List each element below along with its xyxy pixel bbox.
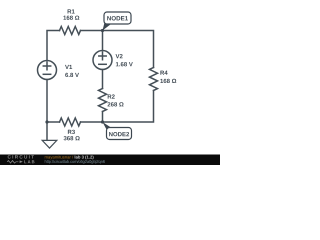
wire left rail top — [47, 31, 60, 61]
label V1 name — [65, 65, 72, 69]
wire V2 to R2 — [102, 70, 104, 89]
resistor R1 — [60, 27, 81, 35]
NODE2 flag tail — [103, 122, 115, 130]
NODE1 flag tail — [103, 23, 114, 31]
bar url text — [45, 160, 105, 164]
bar username text — [45, 155, 73, 159]
wire node1 junction down to V2 — [102, 31, 104, 51]
junction dot node1 — [101, 29, 104, 32]
label R3 name — [68, 130, 75, 134]
V1 plus sign — [43, 62, 50, 69]
V1 minus sign — [43, 73, 50, 75]
NODE1 label box — [104, 12, 131, 24]
label V2 name — [116, 54, 123, 58]
wire junction to ground — [46, 122, 48, 140]
wire node1 to top-right corner down to R4 — [103, 31, 154, 68]
wire R3 to node2 junction — [81, 121, 103, 123]
wire R1 to node1 junction — [81, 30, 103, 32]
resistor R3 — [60, 118, 81, 126]
CircuitLab logo zigzag — [7, 161, 18, 164]
CircuitLab logo probe mark — [20, 160, 23, 163]
CircuitLab logo wordmark LAB — [24, 160, 34, 163]
label V2 value — [116, 62, 133, 66]
bottom info bar — [0, 155, 220, 166]
label R4 name — [160, 71, 167, 75]
NODE1 label text — [107, 16, 128, 20]
wire junction to R3 — [47, 121, 60, 123]
wire R2 to node2 junction — [102, 112, 104, 123]
NODE2 label box — [107, 128, 132, 140]
label R4 value — [160, 79, 176, 83]
resistor R4 — [150, 68, 158, 91]
CircuitLab logo wordmark CIRCUIT — [8, 155, 34, 158]
wire R4 to bottom-right corner — [103, 91, 154, 123]
ground symbol — [42, 140, 57, 148]
label V1 value — [65, 73, 79, 77]
V2 plus sign — [99, 52, 106, 59]
label R2 name — [108, 94, 115, 98]
label R2 value — [108, 102, 124, 106]
label R1 name — [68, 9, 75, 13]
bar title text — [75, 155, 94, 159]
junction dot node2 — [101, 120, 104, 123]
junction dot bottom-left — [45, 120, 48, 123]
wire V1 to bottom-left junction — [46, 80, 48, 123]
V2 minus sign — [99, 63, 106, 65]
label R1 value — [63, 16, 79, 20]
label R3 value — [64, 136, 80, 140]
NODE2 label text — [109, 132, 129, 136]
voltage source V1 circle — [38, 61, 57, 80]
resistor R2 — [99, 89, 107, 112]
voltage source V2 circle — [93, 51, 112, 70]
